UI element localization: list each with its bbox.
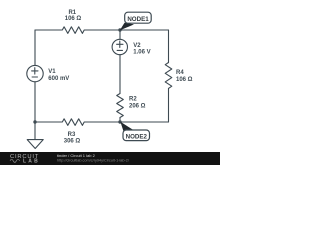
svg-text:R2: R2: [129, 96, 137, 102]
svg-text:R4: R4: [176, 70, 184, 76]
svg-text:NODE1: NODE1: [127, 16, 149, 23]
svg-text:R3: R3: [68, 132, 76, 138]
wire left rail lower (V1 to ground junction): [34, 82, 36, 140]
svg-text:tinder / Circuit 1 lab 2: tinder / Circuit 1 lab 2: [57, 153, 96, 158]
NODE2 label box: [123, 130, 150, 141]
wire middle branch top (node1 to V2): [119, 30, 121, 39]
svg-text:600 mV: 600 mV: [48, 76, 69, 82]
NODE1 flag pointer: [120, 23, 134, 31]
svg-text:206 Ω: 206 Ω: [129, 103, 146, 109]
footer bar: [0, 152, 220, 165]
svg-text:V1: V1: [48, 69, 56, 75]
wire left rail upper (V1 top lead): [34, 30, 36, 65]
voltage source V2: [112, 39, 127, 54]
node B junction dot at NODE2: [118, 120, 121, 123]
wire middle branch bottom (R2 to node2): [119, 118, 121, 123]
footer logo waveform: [10, 159, 20, 162]
svg-text:1.06 V: 1.06 V: [133, 50, 150, 56]
svg-text:LAB: LAB: [23, 159, 40, 165]
node junction dot left bottom: [33, 120, 36, 123]
NODE1 label box: [125, 12, 152, 23]
resistor R2 zigzag: [117, 94, 124, 118]
svg-text:106 Ω: 106 Ω: [65, 16, 82, 22]
wire bottom rail with resistor R3 zigzag: [35, 119, 169, 126]
ground: [27, 140, 43, 149]
wire middle branch (V2 to R2): [119, 55, 121, 94]
wire right rail lower: [168, 88, 170, 122]
voltage source V1: [27, 65, 43, 81]
svg-text:106 Ω: 106 Ω: [176, 77, 193, 83]
NODE2 flag pointer: [120, 122, 133, 131]
svg-text:306 Ω: 306 Ω: [64, 138, 81, 144]
node A junction dot at NODE1: [118, 28, 121, 31]
wire top rail with resistor R1 zigzag: [35, 27, 169, 34]
svg-text:NODE2: NODE2: [126, 133, 148, 140]
svg-text:V2: V2: [133, 43, 141, 49]
svg-text:http://circuitlab.com/c/ry94y/: http://circuitlab.com/c/ry94y/Circuit-1-…: [57, 159, 130, 163]
wire right rail upper: [168, 30, 170, 63]
resistor R4 zigzag: [165, 63, 172, 89]
